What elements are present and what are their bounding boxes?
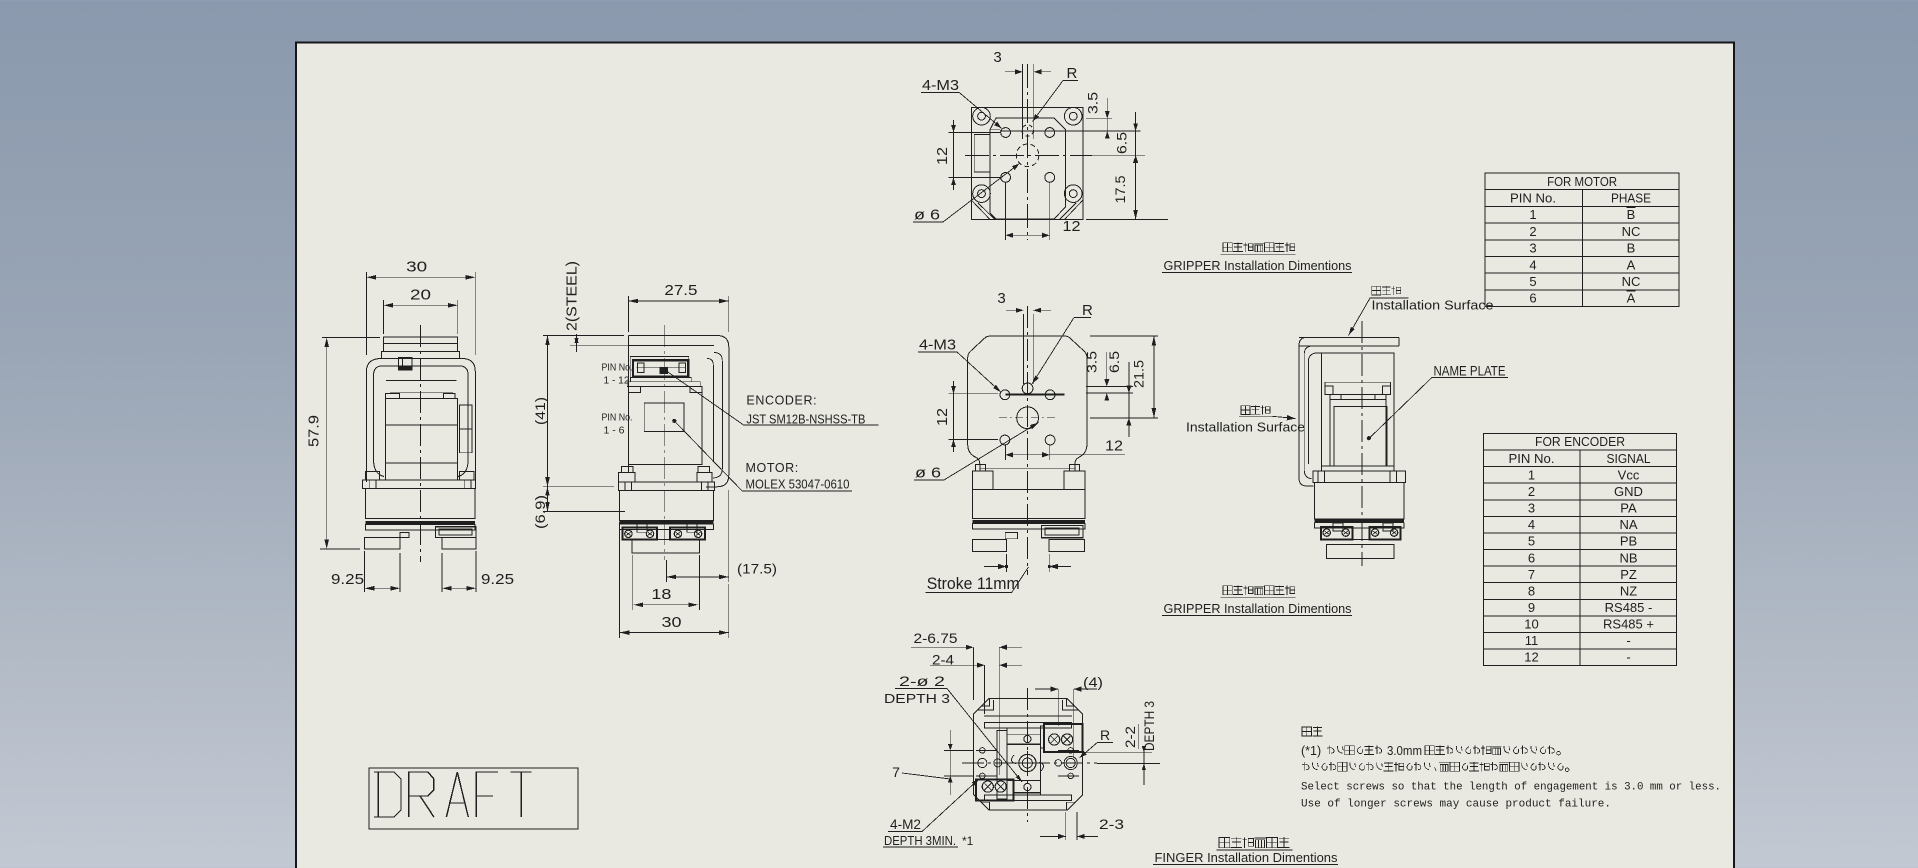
svg-text:Stroke 11mm: Stroke 11mm bbox=[927, 575, 1020, 593]
svg-text:PIN No.: PIN No. bbox=[1510, 191, 1556, 206]
bottom screw block top-right bbox=[1044, 724, 1083, 752]
mid left tab bbox=[1005, 533, 1017, 539]
dim 9.25 right bbox=[441, 553, 443, 592]
svg-text:PHASE: PHASE bbox=[1611, 191, 1651, 206]
view2 finger block bbox=[632, 540, 699, 553]
svg-text:PZ: PZ bbox=[1620, 567, 1637, 582]
bottom bottom rail band bbox=[984, 800, 1072, 802]
svg-text:RS485 +: RS485 + bbox=[1603, 617, 1654, 632]
drawing sheet bbox=[296, 43, 1734, 868]
gripper body bbox=[365, 489, 475, 519]
svg-text:(41): (41) bbox=[532, 397, 548, 425]
side view step band bbox=[1330, 399, 1386, 401]
mount foot right bbox=[460, 472, 474, 481]
svg-text:3: 3 bbox=[993, 49, 1001, 66]
view2 foot right bbox=[697, 472, 712, 481]
bottom center bearing bbox=[1019, 754, 1036, 771]
svg-text:GRIPPER Installation Dimention: GRIPPER Installation Dimentions bbox=[1164, 258, 1352, 273]
front view top cap bbox=[384, 337, 458, 351]
view2 rail strip bbox=[620, 524, 714, 529]
dim 12 left vertical bbox=[949, 132, 1001, 134]
svg-text:2-2: 2-2 bbox=[1123, 726, 1138, 748]
motor leader dot bbox=[672, 419, 676, 423]
svg-text:RS485 -: RS485 - bbox=[1605, 600, 1653, 615]
view2 screw block right bbox=[670, 528, 705, 540]
svg-text:6: 6 bbox=[1528, 550, 1535, 565]
view2 step left bbox=[628, 387, 640, 393]
table FOR ENCODER bbox=[1484, 434, 1677, 666]
side view top plate bbox=[1299, 336, 1399, 338]
svg-text:2-3: 2-3 bbox=[1099, 816, 1124, 832]
side view motor body bbox=[1322, 353, 1395, 471]
svg-text:27.5: 27.5 bbox=[664, 282, 697, 299]
side view bottom plate bbox=[1327, 545, 1394, 559]
svg-text:57.9: 57.9 bbox=[306, 415, 323, 447]
svg-text:FOR MOTOR: FOR MOTOR bbox=[1547, 174, 1617, 189]
mid lower right ear bbox=[1064, 471, 1085, 489]
dim 12 bottom bbox=[1005, 182, 1007, 240]
svg-text:SIGNAL: SIGNAL bbox=[1607, 451, 1651, 466]
bottom corner notch TR bbox=[1063, 698, 1079, 710]
view2 step right bbox=[690, 387, 702, 393]
flange bbox=[363, 480, 476, 488]
svg-text:4-M3: 4-M3 bbox=[919, 337, 956, 354]
view2 centerline bbox=[664, 325, 666, 560]
dim 30 top bbox=[365, 272, 367, 355]
mid view centerline bbox=[1027, 306, 1029, 575]
svg-text:1: 1 bbox=[1528, 467, 1535, 482]
dim 30 bottom bbox=[619, 522, 621, 638]
svg-text:PIN No.: PIN No. bbox=[602, 363, 633, 374]
mid rail dark band bbox=[973, 520, 1085, 523]
svg-text:A: A bbox=[1627, 291, 1636, 306]
bottom slider holes 2-dia2 bbox=[1024, 735, 1031, 742]
side view motor inner lines bbox=[1329, 400, 1331, 467]
svg-text:1 - 12: 1 - 12 bbox=[604, 376, 630, 387]
side view screw block left bbox=[1321, 527, 1353, 540]
encoder connector key bbox=[660, 367, 668, 374]
svg-text:18: 18 bbox=[651, 586, 671, 603]
svg-text:JST SM12B-NSHSS-TB: JST SM12B-NSHSS-TB bbox=[746, 413, 865, 427]
top view corner chamfer bottom-right bbox=[1065, 200, 1084, 220]
svg-text:9: 9 bbox=[1528, 600, 1535, 615]
svg-text:GRIPPER Installation Dimention: GRIPPER Installation Dimentions bbox=[1164, 601, 1352, 616]
svg-text:9.25: 9.25 bbox=[331, 571, 364, 588]
motor side tab bbox=[460, 405, 472, 429]
right finger block bbox=[436, 527, 477, 538]
right finger bbox=[442, 538, 476, 549]
svg-text:3.5: 3.5 bbox=[1086, 92, 1101, 114]
svg-text:NC: NC bbox=[1622, 224, 1641, 239]
svg-text:(*1): (*1) bbox=[1301, 744, 1321, 758]
mid lower body bbox=[973, 489, 1085, 518]
front view steel cover outer bbox=[366, 359, 475, 483]
side view cover wall outer bbox=[1299, 337, 1314, 486]
top view corner screws bbox=[973, 107, 991, 125]
svg-text:6.5: 6.5 bbox=[1115, 132, 1130, 154]
bottom right connector bar bbox=[1040, 726, 1044, 748]
DRAFT stamp bbox=[369, 768, 578, 829]
svg-text:4: 4 bbox=[1528, 517, 1535, 532]
dim 18 bbox=[631, 555, 633, 610]
mid dim 3 bbox=[1006, 309, 1024, 311]
svg-text:5: 5 bbox=[1529, 274, 1536, 289]
svg-text:R: R bbox=[1067, 65, 1078, 82]
svg-text:3: 3 bbox=[1529, 241, 1536, 256]
bottom left block bar bbox=[997, 731, 1007, 799]
dim 9.25 left bbox=[364, 551, 366, 592]
svg-text:DEPTH 3: DEPTH 3 bbox=[884, 691, 950, 706]
svg-text:B: B bbox=[1627, 241, 1636, 256]
svg-text:MOLEX 53047-0610: MOLEX 53047-0610 bbox=[746, 477, 850, 491]
dim 17.5 right bbox=[1086, 219, 1168, 221]
svg-text:3: 3 bbox=[997, 290, 1005, 307]
svg-text:1 - 6: 1 - 6 bbox=[604, 426, 625, 437]
top view inner plate bbox=[990, 118, 1065, 219]
view2 finger tabs bbox=[637, 524, 647, 532]
view2 foot left bbox=[618, 472, 635, 481]
top view corner chamfer bottom-left bbox=[971, 200, 990, 220]
side view centerline bbox=[1361, 321, 1363, 566]
top view centerlines bbox=[1027, 64, 1029, 240]
svg-text:ø 6: ø 6 bbox=[915, 465, 941, 482]
motor lower body bbox=[385, 463, 457, 480]
label gripper installation mid bbox=[1223, 586, 1232, 595]
svg-text:B: B bbox=[1627, 207, 1636, 222]
svg-text:Installation Surface: Installation Surface bbox=[1372, 299, 1494, 313]
svg-text:4-M2: 4-M2 bbox=[890, 816, 921, 832]
dim (17.5) bbox=[666, 560, 668, 582]
motor body bbox=[385, 399, 457, 464]
svg-text:8: 8 bbox=[1528, 583, 1535, 598]
mid M3 holes bbox=[1000, 390, 1010, 400]
view2 rail dark band bbox=[620, 521, 714, 524]
svg-text:Select screws so that the leng: Select screws so that the length of enga… bbox=[1301, 782, 1721, 794]
svg-text:NAME PLATE: NAME PLATE bbox=[1434, 364, 1506, 379]
encoder leader dot bbox=[663, 368, 667, 372]
svg-text:3.0mm: 3.0mm bbox=[1387, 744, 1422, 758]
mid hole row line thick bbox=[1005, 393, 1064, 395]
svg-text:GND: GND bbox=[1614, 484, 1643, 499]
dim 57.9 bbox=[322, 336, 380, 338]
svg-text:17.5: 17.5 bbox=[1113, 176, 1128, 204]
svg-text:R: R bbox=[1082, 302, 1093, 319]
mid right finger attach bbox=[1042, 526, 1083, 538]
motor connector tab bbox=[399, 358, 412, 370]
svg-text:12: 12 bbox=[934, 147, 951, 165]
mid plate bottom edge bbox=[980, 467, 1075, 469]
motor step left bbox=[385, 394, 399, 399]
mid horizontal centerline bbox=[999, 417, 1058, 419]
svg-text:2(STEEL): 2(STEEL) bbox=[564, 261, 581, 331]
svg-text:4: 4 bbox=[1529, 257, 1536, 272]
side view screw block right bbox=[1370, 527, 1401, 540]
front view centerline bbox=[420, 325, 422, 562]
bottom view centerlines bbox=[1026, 688, 1028, 822]
bottom cam hooks bbox=[1011, 755, 1043, 771]
mid center hole bbox=[1017, 407, 1039, 429]
mid dim 3.5 right bbox=[1086, 386, 1133, 388]
left tab bbox=[400, 533, 409, 538]
table FOR MOTOR bbox=[1485, 173, 1679, 307]
motor label plate bbox=[644, 403, 684, 432]
side view flange bbox=[1313, 471, 1406, 483]
svg-text:2: 2 bbox=[1529, 224, 1536, 239]
svg-text:PIN No.: PIN No. bbox=[1509, 451, 1555, 466]
dim (41) bbox=[543, 335, 624, 337]
svg-text:6.5: 6.5 bbox=[1107, 351, 1122, 373]
svg-text:PB: PB bbox=[1620, 534, 1637, 549]
mid left finger bbox=[973, 540, 1007, 552]
svg-text:PA: PA bbox=[1620, 501, 1637, 516]
svg-text:-: - bbox=[1626, 650, 1630, 665]
svg-text:6: 6 bbox=[1529, 291, 1536, 306]
svg-text:Vcc: Vcc bbox=[1618, 467, 1640, 482]
bottom corner notch TL bbox=[978, 698, 994, 710]
side view screws bbox=[1323, 529, 1330, 536]
top view M3 holes bbox=[1001, 128, 1011, 138]
mid dim 21.5 right bbox=[1090, 335, 1158, 337]
view2 motor body bbox=[628, 387, 702, 465]
bottom view outline bbox=[974, 698, 1083, 810]
mid slot edges bbox=[1023, 314, 1025, 384]
name plate dot bbox=[1367, 436, 1371, 440]
svg-text:3.5: 3.5 bbox=[1085, 351, 1100, 373]
svg-text:4-M3: 4-M3 bbox=[922, 77, 959, 94]
svg-text:7: 7 bbox=[892, 764, 900, 780]
side view rail strip bbox=[1315, 523, 1405, 528]
svg-text:(6.9): (6.9) bbox=[532, 495, 548, 529]
dim 20 bbox=[383, 300, 385, 334]
svg-text:FOR ENCODER: FOR ENCODER bbox=[1535, 434, 1625, 449]
svg-text:R: R bbox=[1100, 727, 1110, 743]
dim 3.5 right bbox=[1086, 118, 1112, 120]
view2 cover inner edges bbox=[707, 353, 722, 479]
svg-text:DEPTH 3: DEPTH 3 bbox=[1142, 701, 1157, 751]
mid lower left ear bbox=[973, 471, 994, 489]
bottom top rail band bbox=[984, 715, 1072, 717]
svg-text:DEPTH 3MIN.: DEPTH 3MIN. bbox=[884, 833, 956, 848]
svg-text:11: 11 bbox=[1525, 633, 1539, 648]
svg-text:12: 12 bbox=[1524, 650, 1538, 665]
label installation surface left bbox=[1241, 406, 1250, 415]
mid dim 12 inner bbox=[1004, 444, 1006, 460]
encoder connector bbox=[630, 357, 689, 378]
motor step right bbox=[443, 394, 454, 399]
mid R hole bbox=[1022, 383, 1033, 394]
svg-text:A: A bbox=[1627, 257, 1636, 272]
front view steel cover inner bbox=[374, 366, 469, 477]
mid rail strip bbox=[973, 524, 1085, 529]
bottom left holes bbox=[980, 748, 986, 754]
view2 gripper body bbox=[620, 491, 714, 521]
label finger installation bottom bbox=[1219, 838, 1230, 848]
svg-text:NC: NC bbox=[1622, 274, 1641, 289]
svg-text:9.25: 9.25 bbox=[481, 571, 514, 588]
dim stroke 11mm bbox=[1006, 554, 1008, 572]
dim (6.9) bbox=[547, 487, 549, 512]
svg-text:7: 7 bbox=[1528, 567, 1535, 582]
dim 6.5 right bbox=[1090, 154, 1145, 156]
top view center hole dashed bbox=[1016, 144, 1039, 167]
mid right finger bbox=[1049, 540, 1084, 552]
view2 steel cover bbox=[628, 336, 728, 487]
motor top edge bbox=[386, 379, 457, 381]
svg-text:30: 30 bbox=[662, 614, 682, 631]
hole row line bbox=[1000, 130, 1141, 132]
view2 flange bbox=[618, 482, 714, 491]
mid view plate outline bbox=[968, 336, 1087, 470]
bottom slider bbox=[1007, 728, 1040, 795]
dim 27.5 bbox=[627, 296, 629, 332]
bottom right holes bbox=[1068, 748, 1074, 754]
side view finger tabs bbox=[1333, 523, 1343, 531]
svg-text:10: 10 bbox=[1524, 617, 1538, 632]
svg-text:NZ: NZ bbox=[1620, 583, 1637, 598]
bottom corner notch BR bbox=[1067, 802, 1076, 810]
view2 motor left edge bbox=[627, 336, 629, 473]
side view name plate bbox=[1334, 407, 1387, 467]
mid dim 12 left bbox=[949, 393, 999, 395]
svg-text:-: - bbox=[1626, 633, 1630, 648]
side view gripper body bbox=[1315, 483, 1405, 519]
svg-text:*1: *1 bbox=[962, 834, 974, 848]
svg-text:NA: NA bbox=[1619, 517, 1637, 532]
svg-text:12: 12 bbox=[1063, 218, 1081, 235]
left finger bbox=[365, 538, 401, 549]
svg-text:ENCODER:: ENCODER: bbox=[746, 394, 817, 408]
svg-text:PIN No.: PIN No. bbox=[602, 413, 633, 424]
svg-text:(4): (4) bbox=[1083, 675, 1103, 690]
svg-text:MOTOR:: MOTOR: bbox=[746, 461, 799, 475]
connector base plates bbox=[631, 377, 692, 381]
svg-text:NB: NB bbox=[1619, 550, 1637, 565]
view2 screws bbox=[625, 530, 632, 537]
svg-text:12: 12 bbox=[934, 408, 951, 426]
side view rail dark band bbox=[1315, 519, 1405, 522]
svg-text:ø 6: ø 6 bbox=[914, 207, 940, 224]
side view cover wall inner bbox=[1304, 346, 1399, 479]
dim 3 top bbox=[1022, 64, 1024, 139]
svg-text:12: 12 bbox=[1105, 438, 1123, 455]
mount foot left bbox=[366, 472, 380, 481]
svg-text:20: 20 bbox=[410, 287, 431, 304]
rail dark band bbox=[365, 521, 475, 524]
bottom corner notch BL bbox=[981, 802, 990, 810]
side view connector band bbox=[1325, 382, 1391, 394]
bottom screws top-right bbox=[1049, 734, 1060, 745]
bottom left mid hole bbox=[994, 759, 1002, 767]
mid dim 6.5 right bbox=[1090, 417, 1158, 419]
svg-text:21.5: 21.5 bbox=[1132, 360, 1147, 388]
svg-text:2-6.75: 2-6.75 bbox=[914, 630, 958, 646]
svg-text:Installation Surface: Installation Surface bbox=[1186, 421, 1305, 435]
top view outer square bbox=[971, 107, 1083, 219]
view2 motor bottom bbox=[628, 463, 702, 465]
svg-text:2-ø 2: 2-ø 2 bbox=[899, 673, 945, 689]
svg-text:Use of longer screws may cause: Use of longer screws may cause product f… bbox=[1301, 799, 1611, 811]
rail strip bbox=[365, 524, 475, 530]
label gripper installation top bbox=[1223, 243, 1232, 252]
svg-text:2: 2 bbox=[1528, 484, 1535, 499]
bottom screw block bottom-left bbox=[976, 780, 1014, 801]
svg-text:1: 1 bbox=[1529, 207, 1536, 222]
view2 cover top inner line bbox=[628, 344, 714, 346]
bottom screws bottom-left bbox=[982, 781, 993, 792]
label installation surface top bbox=[1372, 286, 1381, 295]
view2 screw block left bbox=[623, 528, 658, 540]
svg-text:5: 5 bbox=[1528, 534, 1535, 549]
svg-text:3: 3 bbox=[1528, 501, 1535, 516]
svg-text:FINGER Installation Dimentions: FINGER Installation Dimentions bbox=[1155, 850, 1338, 865]
notes bbox=[1302, 727, 1312, 736]
top view R hole dashed bbox=[1022, 125, 1033, 136]
svg-text:(17.5): (17.5) bbox=[737, 561, 777, 577]
svg-text:30: 30 bbox=[406, 259, 427, 276]
left connector cutout bbox=[974, 135, 990, 173]
